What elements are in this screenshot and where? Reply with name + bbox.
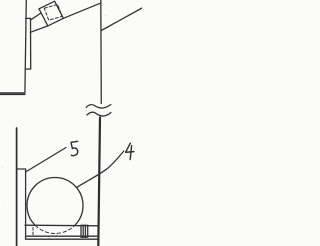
wall vertical line (left frame member) (25, 0, 26, 93)
diagonal line from pole to top right (101, 8, 142, 31)
pole clamp with rungs (81, 225, 88, 237)
bracket top tick (17, 168, 26, 170)
leader line to label 4 (77, 151, 124, 187)
break symbol lower wave (87, 112, 111, 116)
bracket vertical (25, 169, 27, 239)
wall bottom horizontal (double line) (0, 92, 25, 94)
arm lower line (30, 26, 47, 32)
scan speckles (2, 15, 137, 204)
pole lower segment (thicker) (98, 118, 100, 246)
tray rim line (25, 224, 98, 227)
left support bar (lower) (16, 128, 18, 246)
mounting plate on wall (25, 18, 30, 69)
ball (solid visible arc) (27, 178, 83, 226)
diagonal line from box to pole top (63, 3, 100, 18)
ball hidden bottom (dashed arc) (35, 225, 74, 233)
tilted box solid outline (39, 1, 63, 26)
dashed hidden left wall (32, 228, 34, 237)
tilted box dashed inner outline (44, 4, 62, 20)
label 4 (126, 143, 134, 159)
arm upper line (30, 13, 41, 20)
strut to label 5 (26, 148, 66, 173)
tray bottom double line (26, 235, 98, 237)
break symbol upper wave (86, 105, 111, 109)
pole upper segment (100, 0, 103, 104)
label 5 (71, 141, 78, 155)
